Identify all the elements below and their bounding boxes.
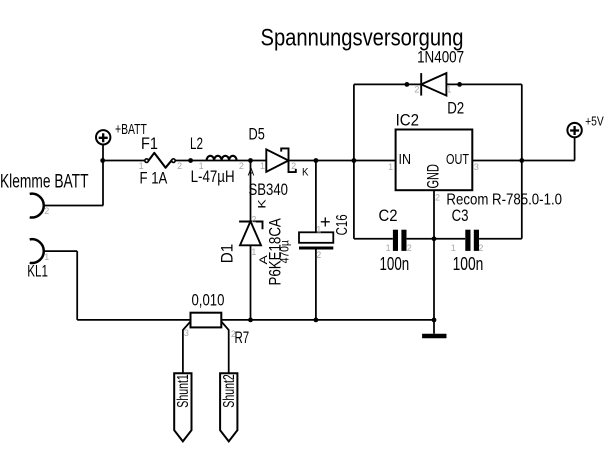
svg-text:100n: 100n — [380, 253, 410, 274]
svg-text:470µ: 470µ — [278, 240, 292, 263]
svg-text:1: 1 — [316, 224, 321, 234]
svg-text:1: 1 — [260, 161, 265, 171]
svg-text:2: 2 — [177, 161, 182, 171]
svg-text:F 1A: F 1A — [140, 170, 168, 188]
svg-text:+5V: +5V — [585, 114, 604, 129]
svg-text:C3: C3 — [452, 207, 469, 225]
svg-text:2: 2 — [291, 161, 296, 171]
svg-text:F1: F1 — [141, 135, 158, 153]
svg-text:SB340: SB340 — [249, 181, 289, 199]
svg-text:1: 1 — [388, 162, 393, 172]
svg-text:Shunt1: Shunt1 — [175, 374, 192, 408]
svg-text:1: 1 — [44, 252, 49, 262]
svg-text:2: 2 — [435, 192, 440, 202]
svg-text:IC2: IC2 — [396, 112, 419, 130]
svg-text:Shunt2: Shunt2 — [221, 374, 238, 408]
svg-text:1: 1 — [251, 247, 256, 257]
svg-text:3: 3 — [184, 328, 189, 338]
svg-text:Recom R-785.0-1.0: Recom R-785.0-1.0 — [446, 192, 562, 209]
svg-text:OUT: OUT — [446, 152, 469, 168]
svg-text:2: 2 — [414, 85, 419, 95]
svg-text:2: 2 — [251, 215, 256, 225]
svg-text:1N4007: 1N4007 — [417, 49, 464, 67]
svg-text:+: + — [320, 212, 331, 232]
svg-text:2: 2 — [231, 329, 236, 339]
svg-text:K: K — [256, 198, 268, 208]
svg-text:1: 1 — [451, 243, 456, 253]
svg-text:C2: C2 — [379, 207, 398, 225]
svg-text:0,010: 0,010 — [192, 290, 225, 309]
svg-text:A: A — [248, 167, 255, 179]
svg-text:L-47µH: L-47µH — [191, 168, 235, 186]
svg-text:Klemme BATT: Klemme BATT — [0, 171, 89, 192]
svg-text:1: 1 — [139, 161, 144, 171]
svg-text:2: 2 — [316, 250, 321, 260]
svg-text:IN: IN — [399, 152, 412, 168]
svg-text:1: 1 — [199, 161, 204, 171]
svg-text:100n: 100n — [453, 253, 484, 274]
svg-text:L2: L2 — [190, 135, 203, 153]
svg-text:K: K — [302, 167, 309, 179]
svg-text:D2: D2 — [447, 99, 464, 117]
svg-text:KL1: KL1 — [27, 262, 48, 280]
svg-text:2: 2 — [478, 243, 483, 253]
svg-text:R7: R7 — [235, 329, 250, 347]
svg-text:GND: GND — [425, 164, 443, 188]
svg-text:Spannungsversorgung: Spannungsversorgung — [261, 24, 464, 51]
svg-text:D1: D1 — [218, 244, 236, 264]
svg-text:1: 1 — [446, 85, 451, 95]
svg-text:2: 2 — [239, 161, 244, 171]
svg-text:C16: C16 — [334, 214, 351, 235]
svg-text:1: 1 — [386, 243, 391, 253]
svg-text:D5: D5 — [249, 125, 265, 143]
svg-text:2: 2 — [44, 206, 49, 216]
svg-text:2: 2 — [407, 243, 412, 253]
svg-text:3: 3 — [474, 162, 479, 172]
